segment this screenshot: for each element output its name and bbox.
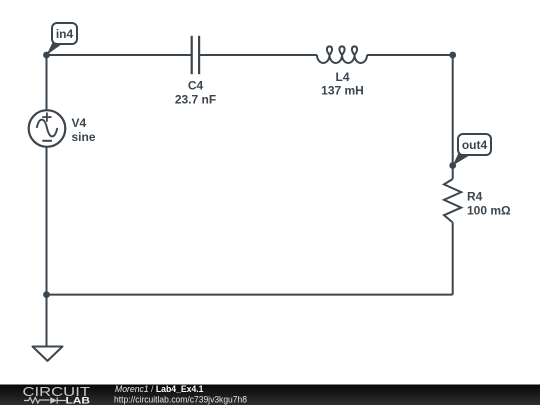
wire C4 right plate to L4	[199, 54, 317, 56]
wire top-left node to C4 left plate	[47, 54, 192, 56]
node in4 flag tail	[47, 41, 63, 56]
svg-text:C4: C4	[188, 79, 204, 93]
ground	[33, 347, 63, 361]
node in4 flag box	[52, 23, 77, 44]
svg-text:out4: out4	[462, 138, 488, 152]
wire bottom from right corner to left junction	[47, 294, 453, 296]
node out4 flag box	[458, 134, 491, 155]
node in4 dot	[43, 52, 50, 59]
svg-text:R4: R4	[467, 190, 483, 204]
footer bar	[0, 385, 540, 405]
footer logo diode triangle	[50, 397, 57, 403]
svg-text:L4: L4	[335, 70, 349, 84]
wire right side down through out4 node to R4 top	[452, 55, 454, 179]
junction dot top-right corner	[449, 52, 456, 59]
svg-text:23.7 nF: 23.7 nF	[175, 92, 216, 106]
footer logo schematic squiggle	[24, 397, 66, 403]
svg-text:sine: sine	[72, 130, 96, 144]
node out4 dot	[449, 162, 456, 169]
resistor R4	[444, 179, 461, 223]
wire L4 to top-right corner	[367, 54, 453, 56]
svg-text:in4: in4	[56, 27, 74, 41]
wire V4 bottom terminal to bottom junction	[46, 147, 48, 295]
svg-text:V4: V4	[72, 116, 87, 130]
V4 plus sign	[42, 113, 51, 122]
junction dot bottom-left	[43, 291, 50, 298]
svg-text:100 mΩ: 100 mΩ	[467, 203, 511, 217]
inductor L4	[317, 46, 367, 63]
svg-text:Morenc1 / Lab4_Ex4.1: Morenc1 / Lab4_Ex4.1	[115, 384, 204, 395]
V4 sine waveform	[37, 120, 58, 137]
wire junction to ground	[46, 295, 48, 347]
wire R4 bottom to bottom-right corner	[452, 223, 454, 295]
wire top-left node down to V4 top terminal	[46, 55, 48, 110]
svg-text:LAB: LAB	[66, 396, 91, 405]
node out4 flag tail	[453, 152, 471, 166]
capacitor C4	[192, 36, 199, 74]
V4 minus sign	[42, 140, 52, 142]
svg-text:137 mH: 137 mH	[321, 84, 364, 98]
voltage source V4 circle	[29, 110, 66, 147]
svg-text:http://circuitlab.com/c739jv3k: http://circuitlab.com/c739jv3kgu7h8	[114, 395, 247, 405]
